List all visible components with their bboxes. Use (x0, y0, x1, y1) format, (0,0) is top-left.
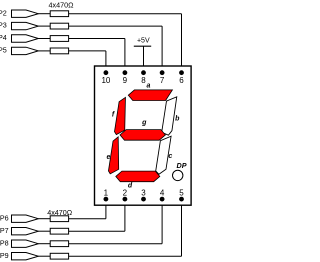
resistor 470ohm for P2 (50, 11, 68, 17)
port connector P4 (12, 35, 39, 42)
pin 10 dot (104, 70, 109, 75)
pin 6 dot (179, 70, 184, 75)
svg-text:6: 6 (179, 76, 184, 85)
port connector P6 (12, 215, 39, 222)
resistor 470ohm for P8 (50, 241, 68, 247)
svg-text:d: d (128, 182, 133, 189)
wire P9 horizontal run (69, 255, 182, 257)
7-segment display body U1 (95, 66, 192, 205)
pin 8 dot (141, 70, 146, 75)
segment c (unlit) (156, 136, 171, 174)
wire P9 vertical rise to pin (181, 199, 183, 256)
decimal point DP (unlit) (173, 170, 183, 180)
svg-text:P9: P9 (0, 251, 9, 260)
wire P2 vertical drop to pin (181, 14, 183, 73)
svg-text:P3: P3 (0, 21, 7, 30)
segment f (lit) (114, 97, 125, 134)
wire P5 to resistor (38, 50, 50, 52)
resistor 470ohm for P6 (50, 216, 68, 222)
svg-text:P4: P4 (0, 33, 7, 42)
port connector P7 (12, 228, 39, 235)
wire P3 horizontal run (69, 25, 163, 27)
svg-text:1: 1 (104, 188, 109, 197)
svg-text:8: 8 (141, 76, 146, 85)
wire P6 vertical rise to pin (105, 199, 107, 219)
wire P2 horizontal run (69, 13, 182, 15)
segment d (lit) (116, 171, 160, 182)
svg-text:4x470Ω: 4x470Ω (49, 0, 75, 9)
port connector P3 (12, 22, 39, 29)
svg-text:7: 7 (160, 76, 165, 85)
wire P8 to resistor (38, 243, 50, 245)
resistor 470ohm for P9 (50, 253, 68, 259)
port connector P2 (12, 10, 39, 17)
wire P5 horizontal run (69, 50, 106, 52)
segment e (lit) (108, 137, 118, 174)
wire P5 vertical drop to pin (105, 51, 107, 73)
svg-text:c: c (168, 153, 172, 160)
wire P4 horizontal run (69, 38, 125, 40)
wire P4 vertical drop to pin (124, 39, 126, 73)
svg-text:2: 2 (123, 188, 128, 197)
svg-text:P7: P7 (0, 226, 9, 235)
svg-text:P6: P6 (0, 213, 9, 222)
segment b (unlit) (162, 97, 177, 135)
wire P7 vertical rise to pin (124, 199, 126, 231)
resistor 470ohm for P4 (50, 36, 68, 42)
pin 3 dot (141, 197, 146, 202)
resistor 470ohm for P3 (50, 23, 68, 29)
port connector P9 (12, 253, 39, 260)
segment a (lit) (128, 90, 172, 101)
svg-text:5: 5 (179, 188, 184, 197)
port connector P8 (12, 240, 39, 247)
svg-text:e: e (107, 154, 111, 161)
wire P3 vertical drop to pin (161, 26, 163, 73)
wire +5V to pin 8 (143, 46, 145, 72)
wire P7 horizontal run (69, 230, 125, 232)
wire P7 to resistor (38, 230, 50, 232)
svg-text:+5V: +5V (137, 38, 150, 45)
wire P6 to resistor (38, 218, 50, 220)
pin 7 dot (160, 70, 165, 75)
pin 2 dot (123, 197, 128, 202)
svg-text:10: 10 (101, 76, 110, 85)
+5V supply bar (134, 45, 151, 47)
port connector P5 (12, 47, 39, 54)
svg-text:P8: P8 (0, 238, 9, 247)
svg-text:9: 9 (123, 76, 128, 85)
svg-text:4: 4 (160, 188, 165, 197)
segment g (lit) (120, 130, 165, 141)
wire P3 to resistor (38, 25, 50, 27)
svg-text:P2: P2 (0, 8, 7, 17)
wire P9 to resistor (38, 255, 50, 257)
wire P2 to resistor (38, 13, 50, 15)
svg-text:a: a (147, 83, 151, 90)
wire P6 horizontal run (69, 218, 106, 220)
pin 9 dot (123, 70, 128, 75)
svg-text:g: g (141, 119, 147, 126)
svg-text:3: 3 (141, 188, 146, 197)
wire P4 to resistor (38, 38, 50, 40)
svg-text:b: b (175, 116, 180, 123)
resistor 470ohm for P7 (50, 228, 68, 234)
wire P8 horizontal run (69, 243, 163, 245)
svg-text:P5: P5 (0, 46, 7, 55)
pin 5 dot (179, 197, 184, 202)
resistor 470ohm for P5 (50, 48, 68, 54)
wire P8 vertical rise to pin (161, 199, 163, 244)
svg-text:DP: DP (177, 161, 187, 170)
pin 1 dot (104, 197, 109, 202)
pin 4 dot (160, 197, 165, 202)
